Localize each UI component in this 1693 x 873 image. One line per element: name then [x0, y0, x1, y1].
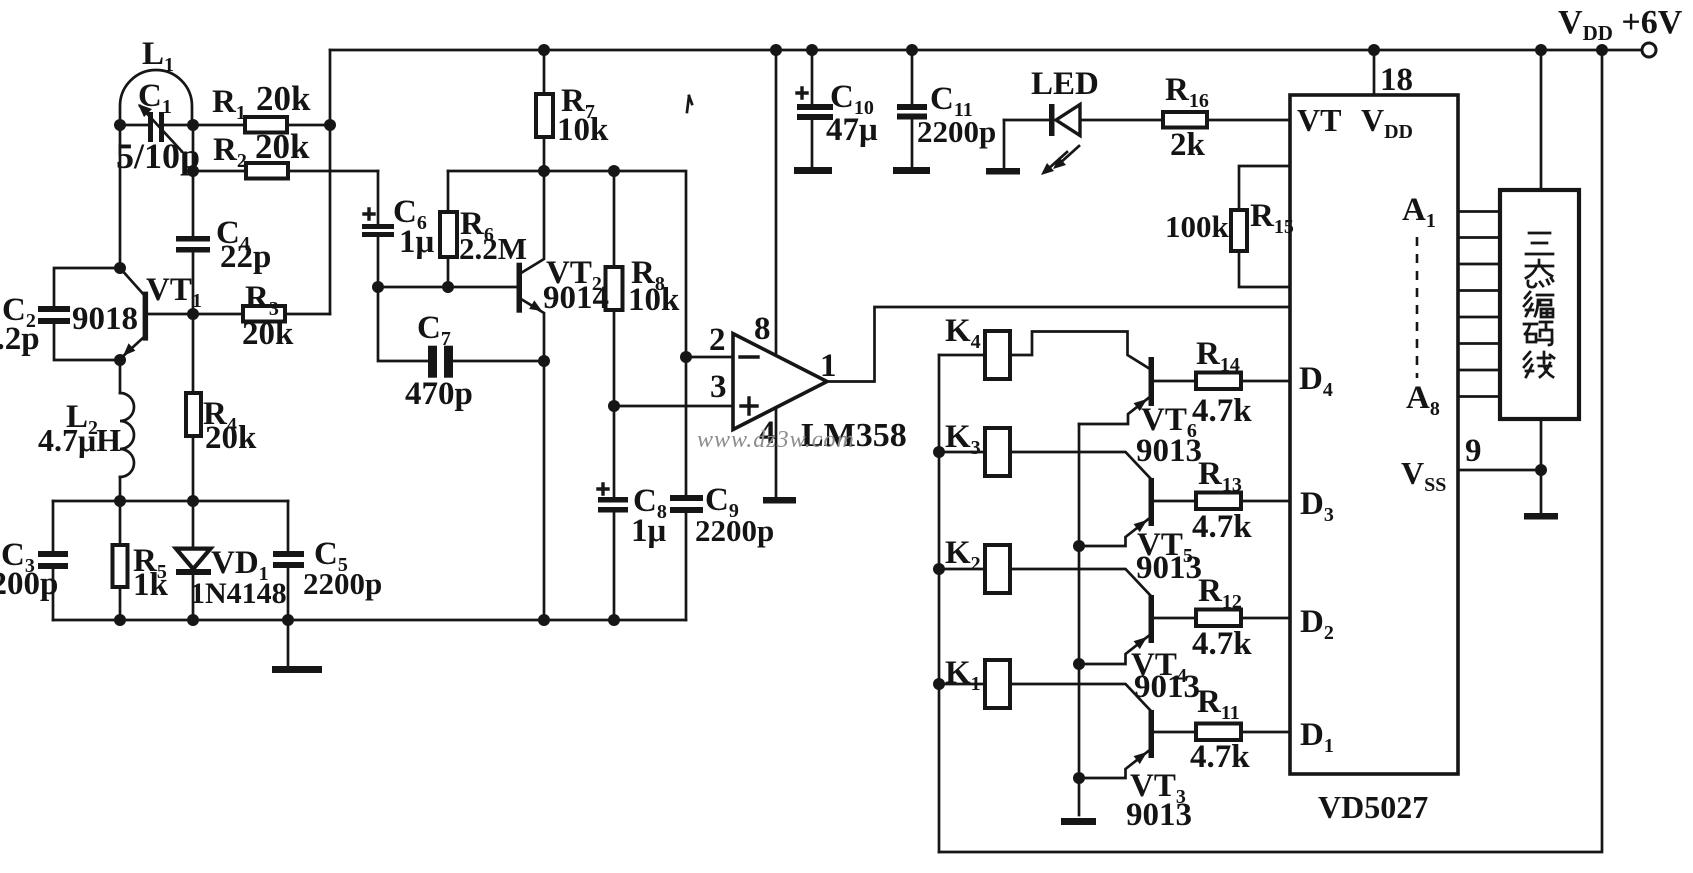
node R2 junction	[187, 165, 199, 177]
svg-text:VT: VT	[1297, 102, 1341, 138]
node rail VD1	[187, 614, 199, 626]
inductor L2 4.7uH	[120, 360, 134, 501]
node VT5 emitter	[1073, 540, 1085, 552]
stray ink mark	[687, 96, 692, 112]
svg-text:2200p: 2200p	[695, 513, 774, 548]
glyph xian (line)	[1524, 352, 1554, 377]
wire transistor common emitter ground line	[1078, 424, 1081, 815]
node L2 bottom R5 top	[114, 495, 126, 507]
capacitor C8 1u electrolytic	[598, 484, 628, 620]
node VT4 emitter	[1073, 658, 1085, 670]
svg-text:20k: 20k	[255, 127, 310, 166]
wire L1 right leg down through R2 node to C4	[192, 125, 195, 236]
svg-text:9013: 9013	[1136, 550, 1202, 586]
svg-text:100k: 100k	[1165, 209, 1230, 244]
capacitor C11 2200p	[893, 50, 930, 174]
node C10 rail	[806, 44, 818, 56]
IC U2 VD5027	[1290, 95, 1458, 774]
svg-text:9014: 9014	[543, 280, 609, 316]
svg-text:C1: C1	[138, 78, 172, 118]
transistor VT6 9013	[1079, 357, 1196, 424]
svg-text:1: 1	[820, 348, 837, 384]
ground symbol VSS	[1524, 470, 1558, 520]
capacitor C10 47u electrolytic	[794, 50, 833, 174]
svg-text:8: 8	[754, 311, 771, 347]
wire bottom loop to VDD	[939, 50, 1602, 852]
wire A2 stub	[1458, 236, 1500, 239]
svg-text:10k: 10k	[557, 112, 609, 148]
node R4 bottom VD1 top	[187, 495, 199, 507]
resistor R13 4.7k	[1196, 493, 1290, 510]
svg-text:L1: L1	[142, 36, 174, 76]
resistor R1 20k	[193, 117, 330, 133]
wire A3 stub	[1458, 263, 1500, 266]
node VT1 base	[187, 308, 199, 320]
wire L1 left leg down to VT1 collector	[119, 125, 122, 268]
svg-text:R16: R16	[1165, 72, 1209, 112]
svg-text:9013: 9013	[1126, 797, 1192, 833]
node L1 right leg R1 junction	[187, 119, 199, 131]
svg-text:20k: 20k	[242, 316, 294, 352]
wire A1 stub	[1458, 210, 1500, 213]
capacitor C3 2200p	[38, 501, 68, 620]
transistor VT2 9014	[517, 171, 545, 620]
svg-text:9018: 9018	[72, 301, 138, 337]
svg-text:2: 2	[709, 322, 726, 358]
resistor R11 4.7k	[1196, 724, 1290, 741]
node R6 bottom base	[442, 281, 454, 293]
svg-text:A1: A1	[1402, 192, 1436, 232]
node op-amp pin3 junction	[608, 400, 620, 412]
resistor R15 100k	[1231, 166, 1290, 287]
svg-text:18: 18	[1380, 62, 1413, 98]
node op-amp pin2 junction	[680, 351, 692, 363]
wire encoder box top to rail	[1540, 50, 1543, 190]
resistor R2 20k	[193, 163, 378, 179]
node VT3 emitter	[1073, 772, 1085, 784]
wire op-amp pin2	[686, 356, 733, 359]
capacitor C5 2200p	[273, 501, 304, 620]
svg-text:K4: K4	[945, 313, 981, 353]
svg-text:9013: 9013	[1134, 669, 1200, 705]
svg-text:D4: D4	[1299, 361, 1333, 401]
wire IC pin18 stub	[1373, 50, 1376, 95]
wire VSS pin 9	[1458, 469, 1541, 472]
node VT2 emitter C7 junction	[538, 355, 550, 367]
svg-text:4.7k: 4.7k	[1192, 626, 1252, 662]
node R8 top	[608, 165, 620, 177]
wire op-amp pin4 to ground	[775, 408, 778, 497]
capacitor C1 variable 5/10p	[138, 104, 182, 151]
svg-text:LED: LED	[1031, 66, 1099, 102]
svg-text:2.2M: 2.2M	[459, 231, 527, 266]
node rail C8	[608, 614, 620, 626]
wire VT2 collector node bus	[448, 171, 686, 495]
capacitor C9 2200p	[670, 495, 703, 620]
node rail C5	[282, 614, 294, 626]
svg-text:1N4148: 1N4148	[190, 577, 287, 610]
glyph san (three)	[1526, 233, 1553, 254]
switch K2	[939, 545, 1150, 595]
svg-text:4.7k: 4.7k	[1190, 739, 1250, 775]
capacitor C4 22p	[176, 236, 210, 314]
svg-text:D1: D1	[1300, 717, 1334, 757]
svg-text:9013: 9013	[1136, 433, 1202, 469]
svg-text:D3: D3	[1300, 486, 1334, 526]
wire op-amp output pin1 to IC	[827, 307, 1290, 382]
svg-text:R11: R11	[1197, 684, 1240, 724]
ground symbol op-amp pin4	[763, 497, 796, 504]
svg-text:4.7k: 4.7k	[1192, 393, 1252, 429]
wire A5 stub	[1458, 316, 1500, 319]
node R7 rail	[538, 44, 550, 56]
svg-text:www.dz3w.com: www.dz3w.com	[697, 427, 855, 453]
node K1 branch	[933, 678, 945, 690]
svg-text:VD5027: VD5027	[1318, 789, 1428, 825]
wire bottom ground rail left section	[53, 619, 686, 622]
svg-text:R1: R1	[212, 84, 246, 124]
svg-text:R3: R3	[245, 280, 279, 320]
svg-text:VSS: VSS	[1401, 455, 1446, 496]
capacitor C6 1u electrolytic	[362, 171, 394, 287]
terminal VDD +6V open circle	[1642, 43, 1656, 57]
svg-text:47μ: 47μ	[826, 112, 878, 148]
wire A8 stub	[1458, 395, 1500, 398]
wire encoder box bottom to VSS	[1540, 419, 1543, 470]
svg-text:1μ: 1μ	[631, 513, 667, 549]
svg-text:4.7μH: 4.7μH	[38, 422, 121, 458]
switch K3	[939, 428, 1150, 478]
wire A6 stub	[1458, 342, 1500, 345]
LED emission arrows	[1041, 146, 1079, 175]
svg-text:2200p: 2200p	[303, 566, 382, 601]
wire A4 stub	[1458, 289, 1500, 292]
transistor VT4 9013	[1079, 595, 1196, 664]
glyph bian (weave)	[1524, 292, 1553, 317]
wire top VDD rail	[330, 50, 1642, 314]
resistor R12 4.7k	[1196, 610, 1290, 627]
glyph ma (code)	[1524, 322, 1552, 345]
diode VD1 1N4148	[176, 501, 211, 620]
transistor VT3 9013	[1079, 710, 1196, 778]
svg-text:1k: 1k	[133, 567, 169, 603]
capacitor C7 470p	[378, 287, 544, 378]
node K3 branch	[933, 446, 945, 458]
wire key common line left	[938, 355, 941, 852]
node R7 bottom collector	[538, 165, 550, 177]
node C6 bottom base	[372, 281, 384, 293]
svg-text:D2: D2	[1300, 604, 1334, 644]
resistor R5 1k	[113, 501, 128, 620]
resistor R16 2k	[1163, 112, 1290, 128]
svg-text:1μ: 1μ	[399, 224, 435, 260]
resistor R7 10k	[536, 50, 553, 171]
switch K1	[939, 660, 1150, 710]
node encoder box rail	[1535, 44, 1547, 56]
node right loop rail	[1596, 44, 1608, 56]
node C11 rail	[906, 44, 918, 56]
ground symbol common emitters	[1061, 818, 1096, 825]
wire lower-left horizontal bus	[53, 500, 288, 503]
glyph tai (state)	[1526, 260, 1553, 287]
svg-text:9: 9	[1465, 433, 1482, 469]
node VT1 emitter	[114, 354, 126, 366]
svg-text:R15: R15	[1250, 198, 1294, 238]
svg-text:VDD: VDD	[1361, 102, 1413, 143]
svg-text:A8: A8	[1406, 380, 1440, 420]
node rail R5	[114, 614, 126, 626]
inductor L1 loop antenna	[120, 70, 193, 125]
node K2 branch	[933, 563, 945, 575]
resistor R8 10k	[606, 171, 623, 497]
ground symbol below C5	[272, 620, 322, 673]
node op-amp pin8 rail	[770, 44, 782, 56]
dashed line A1 to A8	[1416, 237, 1419, 378]
svg-text:2.2p: 2.2p	[0, 321, 40, 357]
svg-text:2200p: 2200p	[917, 114, 996, 149]
wire op-amp pin8 to rail	[775, 50, 778, 355]
node L1 left leg	[114, 119, 126, 131]
transistor VT1 9018	[120, 268, 193, 359]
svg-text:3: 3	[710, 369, 727, 405]
svg-text:K2: K2	[945, 535, 981, 575]
svg-text:2k: 2k	[1170, 127, 1206, 163]
node IC pin18 rail	[1368, 44, 1380, 56]
resistor R4 20k	[186, 314, 201, 501]
block tri-state encoder lines box	[1500, 190, 1579, 419]
svg-text:VDD +6V: VDD +6V	[1558, 4, 1683, 45]
svg-text:470p: 470p	[405, 376, 473, 412]
node rail VT2 emitter	[538, 614, 550, 626]
svg-text:R12: R12	[1198, 573, 1242, 613]
svg-text:R2: R2	[213, 132, 247, 172]
wire op-amp pin3	[614, 405, 733, 408]
svg-text:R13: R13	[1198, 456, 1242, 496]
svg-text:K1: K1	[945, 655, 981, 695]
diode LED	[986, 104, 1163, 175]
resistor R3 20k	[193, 306, 330, 322]
svg-text:4.7k: 4.7k	[1192, 509, 1252, 545]
node VT1 collector	[114, 262, 126, 274]
resistor R14 4.7k	[1196, 373, 1290, 390]
op-amp U1 LM358	[733, 334, 827, 430]
wire A7 stub	[1458, 369, 1500, 372]
svg-text:C7: C7	[417, 310, 451, 350]
switch K4	[939, 331, 1150, 379]
svg-text:20k: 20k	[205, 420, 257, 456]
svg-text:22p: 22p	[220, 239, 271, 275]
svg-text:20k: 20k	[256, 79, 311, 118]
transistor VT5 9013	[1079, 478, 1196, 546]
capacitor C2 2.2p	[38, 268, 120, 360]
wire VT2 base line	[378, 286, 517, 289]
svg-text:K3: K3	[945, 419, 981, 459]
node VSS junction	[1535, 464, 1547, 476]
svg-text:10k: 10k	[628, 282, 680, 318]
svg-text:2200p: 2200p	[0, 566, 58, 602]
node R1 top rail corner junction	[324, 119, 336, 131]
resistor R6 2.2M	[440, 171, 457, 287]
svg-text:R14: R14	[1196, 336, 1240, 376]
